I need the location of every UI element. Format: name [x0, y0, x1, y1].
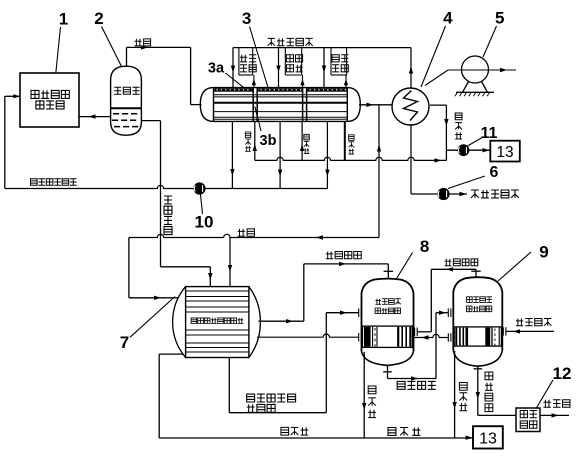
reactor vessel 1 (wet oxidation reactor)	[20, 73, 79, 127]
vacuum pump 5 support legs	[463, 82, 469, 93]
pump 6	[438, 188, 449, 199]
heat exchanger 4 (circle with zigzag)	[392, 88, 429, 125]
flash evaporator vessel 2	[111, 66, 142, 135]
wire: feed drop into effect 2	[278, 48, 280, 88]
wire: concentrated wastewater return line to reactor	[5, 185, 328, 188]
wire: heat exchanger to vacuum device 5	[425, 70, 448, 86]
wire: heat exchanger bottom line to pump 6	[410, 125, 412, 194]
wire: steam branch down left into evaporator 7 side	[128, 238, 130, 298]
svg-text:5: 5	[495, 9, 504, 28]
evaporator 3 left dome	[200, 88, 213, 122]
secondary steam duct 1 on evaporator 3	[238, 48, 240, 75]
evaporator 7 right dome	[249, 287, 261, 358]
wire: evap 7 condensate to bottom condensate line	[159, 353, 183, 355]
svg-text:13: 13	[496, 144, 513, 161]
wire: reactor outlet to flash vessel 2	[79, 116, 111, 118]
wire: steam drop into evaporator 7 top	[229, 238, 231, 287]
svg-text:1: 1	[59, 10, 68, 29]
wire: feed drop into effect 3	[323, 48, 325, 88]
liquid dashes in vessel 2	[112, 114, 138, 127]
wire: vessel 8 condensate down	[363, 352, 365, 438]
wire: feed drop into effect 1	[232, 48, 234, 88]
centrifuge box 12	[516, 408, 540, 432]
evaporator 3 internal tube lines	[214, 94, 348, 96]
wire: heating steam line to evaporator 7	[129, 234, 379, 237]
pump 10 on reactor return line	[194, 183, 205, 194]
evaporator 7 horizontal-tube falling film evaporator body	[186, 287, 249, 358]
svg-text:8: 8	[420, 237, 429, 256]
wire: header riser to heat exchanger 4	[410, 48, 412, 89]
svg-text:10: 10	[195, 212, 214, 231]
box 13 (bottom condensate tank)	[473, 426, 503, 448]
wire: effect1 concentrate downcomer	[231, 121, 233, 188]
vessel 8 tube band	[362, 326, 412, 347]
wire: high-salt wastewater from flash vessel down to evaporator 7	[141, 120, 160, 122]
wire: effect2 condensate drop	[301, 121, 303, 160]
wire: main condensate line to box 13 (bottom)	[159, 437, 472, 439]
wire: coal chemical wastewater feed header	[233, 47, 411, 49]
svg-text:4: 4	[443, 9, 453, 28]
wire: vessel 9 secondary steam to vessel 8 heater	[431, 268, 476, 270]
svg-text:12: 12	[553, 364, 572, 383]
wire: vessels 8-9 connecting line	[414, 334, 449, 337]
wire: flash steam line to evaporator 3 first effect	[126, 47, 128, 66]
svg-text:9: 9	[539, 243, 548, 262]
wire: heat exchanger right outlet down	[430, 104, 446, 106]
wire: evap 7 liquid to vessel 8 mid nozzle	[257, 334, 359, 337]
svg-text:13: 13	[479, 431, 497, 448]
vessel 9 top nozzle	[475, 269, 477, 278]
wire: effect1 condensate drop	[254, 121, 256, 160]
svg-text:3: 3	[242, 9, 251, 28]
vacuum pump 5 circle	[462, 56, 489, 83]
vessel 9 tube band	[454, 327, 501, 346]
wire: effect3 condensate drop (thick)	[344, 121, 346, 160]
vacuum pump 5 ground line with hatching	[456, 91, 494, 93]
evaporator 7 internal tube lines	[186, 290, 249, 292]
svg-text:7: 7	[120, 333, 129, 352]
wire: evap 7 bottom concentrate to vessel 8 upper feed	[228, 358, 230, 413]
wire: evaporator 3 vapour to heat exchanger 4	[359, 104, 392, 106]
wire: condensate to box 13 through pump 11	[446, 149, 490, 151]
vessel 9 bottom dome	[453, 351, 502, 367]
vessel 8 bottom dome	[362, 351, 414, 365]
liquid level line in vessel 2	[111, 107, 142, 109]
evaporator 3 right dome	[347, 88, 360, 122]
wire: vessel 9 condensate down	[454, 351, 456, 438]
wire: effect2 concentrate downcomer	[279, 121, 281, 188]
vessel 9 first-effect vertical tube evaporator body	[453, 277, 502, 350]
wire: vapour riser from steam line to evap3 outlet line	[378, 105, 380, 238]
svg-text:2: 2	[94, 9, 103, 28]
wire: condensate collection line y160	[255, 157, 447, 160]
wire: wet crystal salt outlet	[540, 414, 569, 416]
evaporator 3 top tube-sheet dark bands	[214, 88, 252, 91]
evaporator 3 horizontal vessel body	[214, 88, 348, 122]
svg-text:3a: 3a	[208, 61, 225, 77]
wire: evap 7 vapour to vessel 8 top	[259, 320, 304, 322]
wire: effect3 concentrate downcomer	[326, 121, 328, 188]
pump 11	[458, 145, 469, 156]
wire: medium pressure steam inlet	[506, 330, 554, 332]
secondary steam duct 2 on evaporator 3	[284, 48, 286, 75]
svg-text:11: 11	[481, 125, 498, 142]
wire: vessel 8 bottom concentrate to vessel 9 feed	[387, 365, 389, 371]
evaporator 3 section divider plates	[252, 88, 254, 122]
secondary steam duct 3 on evaporator 3	[330, 48, 332, 75]
vessel 8 top nozzle	[387, 271, 389, 279]
box 13 (upper condensate tank)	[490, 141, 520, 162]
wire: vessel 9 bottom saturated water to centrifuge 12	[477, 366, 479, 369]
vessel 8 second-effect vertical tube evaporator body	[362, 279, 414, 352]
svg-text:3b: 3b	[260, 133, 277, 149]
evaporator 7 left dome	[173, 287, 186, 358]
svg-text:6: 6	[490, 164, 499, 181]
